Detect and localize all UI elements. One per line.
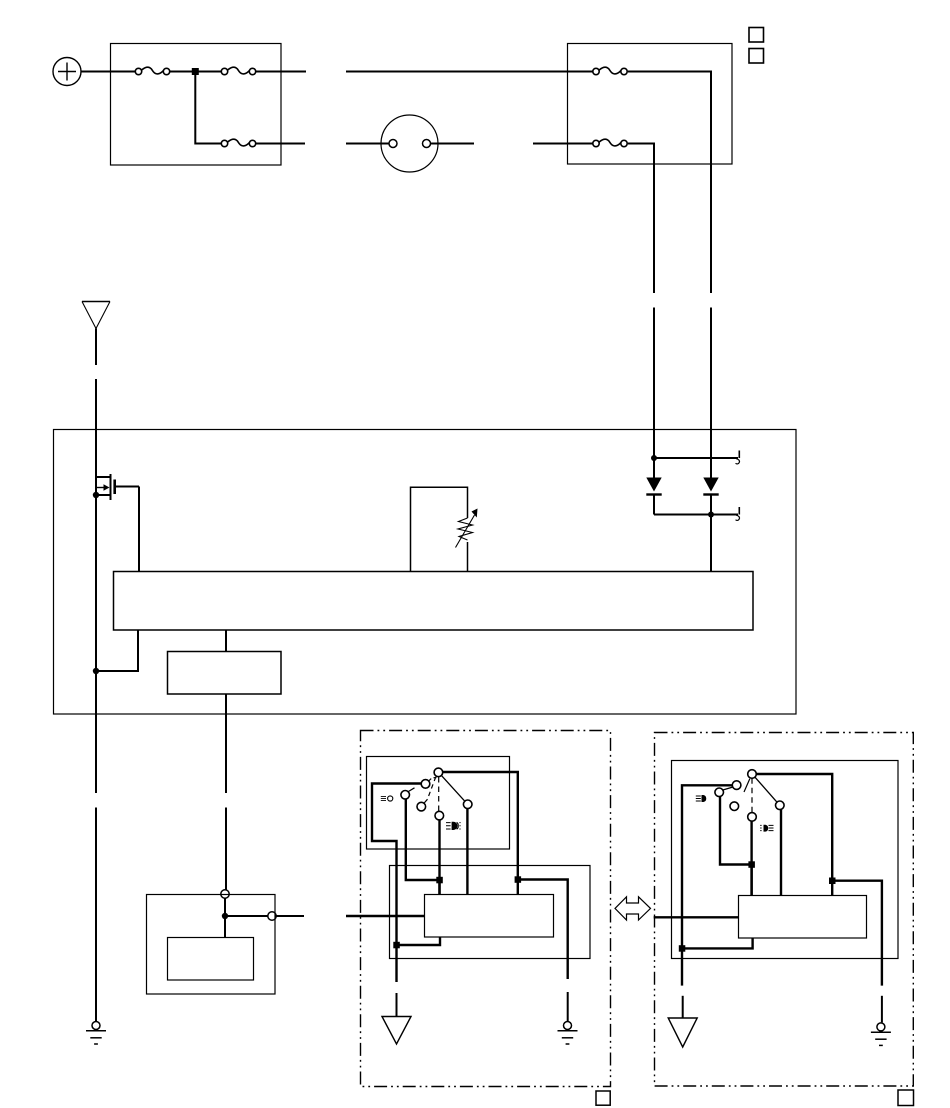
node dot lower left (93, 668, 99, 674)
variant enclosure A (phantom dash-dot-dot box) (361, 731, 611, 1087)
switch terminal common B (748, 770, 757, 779)
switch wire terminal f down A (438, 820, 440, 895)
wire battery to fuse box (81, 71, 135, 73)
wire from circle right terminal (431, 143, 475, 145)
wire signal input B (654, 916, 739, 918)
amplifier box (147, 895, 276, 995)
switch contact link c-b B (723, 787, 733, 790)
switch movable stub B (744, 779, 750, 792)
antenna lead wire after gap (95, 379, 97, 478)
connector half terminal lower (736, 507, 740, 520)
wire sub block lead down (225, 808, 227, 891)
diode D1 (646, 458, 661, 515)
diode D2 (703, 478, 718, 572)
transistor Q1 (antenna input FET) (96, 474, 139, 500)
switch terminal g A (463, 800, 472, 809)
control unit box A (425, 895, 554, 938)
switch wire terminal f down B (750, 821, 752, 895)
wire antenna line down inside unit (95, 478, 97, 793)
switch dashed diagonal to e A (428, 777, 436, 799)
node dot common branch A (515, 876, 522, 883)
ground G2 A (558, 1022, 578, 1045)
switch wire terminal b to ground leg A (372, 784, 421, 946)
switch wire terminal g down B (780, 810, 782, 896)
ground G2 B (871, 1023, 891, 1046)
node junction dot (192, 68, 199, 75)
wire junction branch down (195, 73, 221, 144)
equivalence double arrow (615, 897, 651, 920)
switch terminal b B (732, 781, 741, 790)
under-hood fuse/relay box (568, 44, 733, 165)
antenna symbol (82, 302, 110, 329)
icon headlights A (446, 822, 461, 830)
switch wire terminal b to ground leg B (682, 785, 732, 948)
wire ground leg down A (395, 945, 397, 982)
switch terminal e A (417, 802, 426, 811)
wire unit bottom pin to ground leg B (682, 938, 753, 948)
switch wire terminal c branch B (720, 797, 749, 865)
wire top row to right fuse box (346, 71, 593, 73)
switch solid contact to g B (755, 777, 777, 802)
wire f node into unit A (already via f down) (438, 880, 440, 895)
wire after connector gap (533, 143, 593, 145)
switch wire terminal g down A (466, 809, 468, 895)
wire to right then down (628, 72, 711, 294)
body ground arrow A (382, 1017, 411, 1045)
ground G1 (86, 1022, 106, 1045)
radio unit box (54, 430, 797, 715)
switch wire terminal c branch A (406, 799, 437, 880)
wire radio ground lead (95, 808, 97, 1022)
wire common node to ground leg A (518, 880, 568, 980)
switch terminal c A (401, 791, 410, 800)
page reference square A (596, 1091, 610, 1105)
switch terminal c B (715, 788, 724, 797)
body ground arrow B (668, 1018, 697, 1047)
fuse F1 (135, 67, 169, 74)
lighting switch box A (367, 757, 510, 850)
wire from node to bus box bottom (96, 630, 138, 671)
terminal circle top (221, 890, 229, 898)
speaker inner box (168, 938, 254, 981)
wire out of amplifier (276, 915, 304, 917)
fuse F5 (593, 139, 627, 146)
wire ground leg resume B (682, 996, 684, 1018)
page reference square 1 (749, 28, 764, 43)
terminal circle right (268, 912, 276, 920)
control unit box B (739, 896, 867, 939)
switch contact stub e A (424, 799, 427, 803)
page reference square B (898, 1090, 914, 1106)
node dot c/f join A (436, 877, 443, 884)
node dot (651, 455, 657, 461)
wire into amplifier (224, 898, 226, 937)
wire node to right terminal (225, 915, 268, 917)
switch dashed vertical to f A (438, 777, 440, 811)
icon foglights B (760, 825, 773, 832)
switch terminal b A (421, 780, 430, 789)
wire ground leg resume B (881, 996, 883, 1023)
variable resistor block (411, 487, 468, 571)
fuse F3 (221, 139, 255, 146)
wire (256, 143, 305, 145)
sub block box (168, 652, 282, 695)
wire (170, 71, 221, 73)
connector half terminal upper (736, 451, 740, 464)
wire vertical resume left (653, 308, 655, 459)
wire signal to relay unit (346, 915, 424, 917)
wire common node into unit A (517, 880, 519, 895)
node dot c/f join B (748, 861, 755, 868)
node dot common branch B (829, 878, 836, 885)
node dot unit bottom B (679, 945, 686, 952)
node dot unit bottom A (393, 942, 400, 949)
page reference square 2 (749, 49, 764, 64)
wire (256, 71, 306, 73)
wire diode output stub lower (654, 514, 738, 516)
icon parking lights A (381, 796, 393, 801)
switch terminal f B (748, 813, 757, 822)
wire ground leg down B (681, 948, 683, 985)
icon headlights B (696, 795, 706, 802)
node dot (708, 512, 714, 518)
variant enclosure B (phantom dash-dot-dot box) (655, 733, 914, 1087)
wire diode feed stub upper (654, 457, 738, 459)
switch terminal f A (435, 811, 444, 820)
wire second row to connector circle (346, 143, 389, 145)
battery positive terminal (53, 58, 81, 86)
wire Q1 drain down to main bus box (138, 487, 140, 572)
wire sub block down and out of unit (225, 694, 227, 793)
fuse F2 (221, 67, 255, 74)
connector / switch circle (381, 115, 438, 172)
switch dashed vertical to f B (751, 778, 753, 812)
relay assembly thin box A (390, 866, 591, 959)
combination box B (672, 761, 899, 959)
node dot (222, 913, 228, 919)
wire unit bottom pin to ground leg A (397, 937, 441, 945)
switch contact stub c A (408, 788, 414, 792)
wire ground leg resume A (396, 993, 398, 1016)
wire common node to ground leg B (832, 881, 882, 986)
switch movable contact dashes to b A (429, 778, 437, 782)
wire vertical resume right (710, 308, 712, 479)
antenna lead wire (95, 329, 97, 366)
wire to right then down (628, 144, 654, 294)
fuse F4 (593, 67, 627, 74)
switch terminal common A (434, 768, 443, 777)
node dot at gate (93, 492, 99, 498)
wire bus to sub block (225, 630, 227, 651)
switch terminal e B (730, 802, 739, 811)
wire node into unit B (750, 865, 752, 896)
switch wire common feed A (443, 772, 518, 880)
fuse box (driver's under-dash) (111, 44, 282, 166)
variable resistor zigzag RV1 (456, 509, 478, 548)
switch terminal g B (776, 801, 785, 810)
switch solid contact to g A (442, 776, 465, 802)
switch wire common feed B (756, 774, 832, 881)
wire common node into unit B (831, 881, 833, 896)
main circuit bus box (114, 572, 754, 631)
wire ground leg resume A (567, 992, 569, 1021)
